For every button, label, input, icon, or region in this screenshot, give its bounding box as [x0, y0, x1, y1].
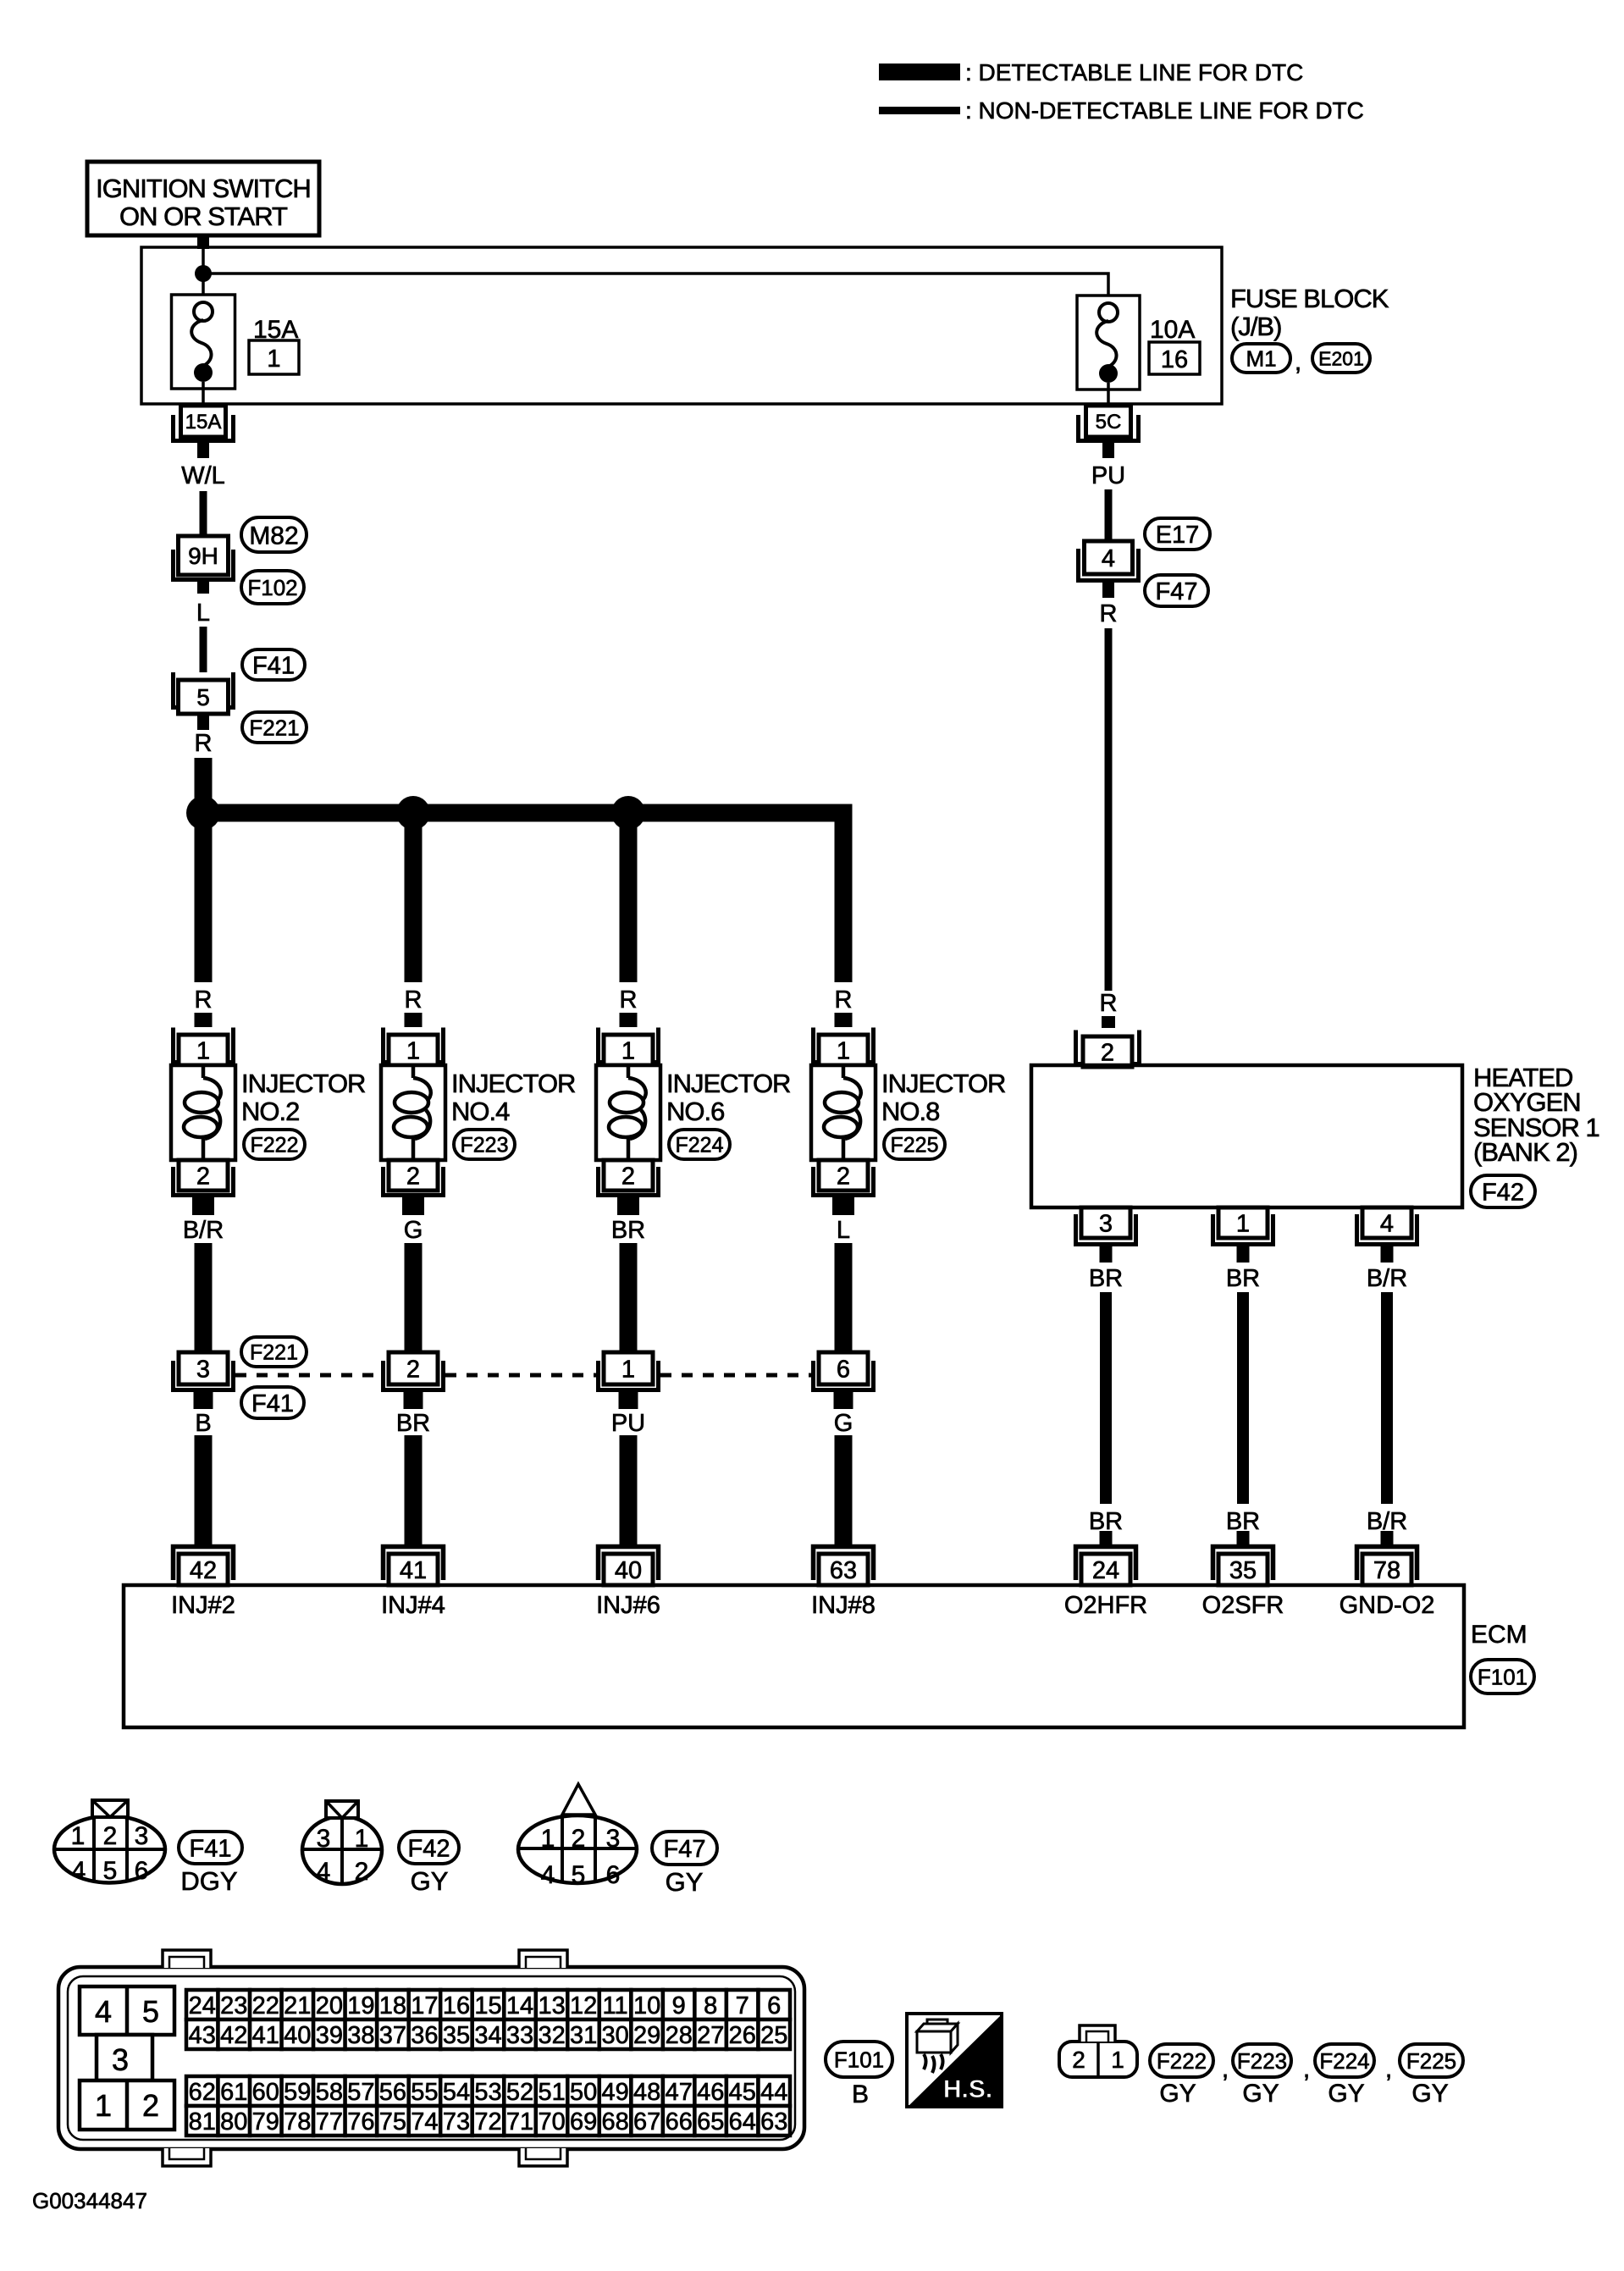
- ECM pin 24: [1076, 1547, 1136, 1586]
- bus wire R distributing to injectors: [195, 804, 853, 822]
- svg-text:43: 43: [189, 2022, 216, 2049]
- wire label BR: [611, 1217, 645, 1244]
- legend: detectable line sample: [879, 59, 1303, 86]
- wire stub below 5C: [1102, 443, 1114, 458]
- svg-text:2: 2: [406, 1356, 420, 1383]
- wire BR (detectable): [620, 1243, 638, 1352]
- svg-text:L: L: [196, 600, 210, 627]
- wire PU: [1105, 489, 1113, 541]
- connector ref F47 (view): [652, 1832, 717, 1897]
- fuse 1 15A: [172, 295, 235, 389]
- wire stub below sensor pin 3: [1100, 1246, 1113, 1263]
- svg-text:ON OR START: ON OR START: [119, 202, 288, 231]
- svg-text:R: R: [405, 986, 423, 1014]
- svg-text:E17: E17: [1156, 522, 1200, 549]
- svg-text:68: 68: [601, 2108, 628, 2136]
- svg-text:F47: F47: [664, 1836, 706, 1863]
- ECM pin label INJ#2: [171, 1592, 235, 1619]
- svg-text:74: 74: [411, 2108, 438, 2136]
- svg-text:29: 29: [633, 2022, 660, 2049]
- svg-text:16: 16: [443, 1992, 470, 2020]
- svg-text:55: 55: [411, 2079, 438, 2106]
- svg-text:H.S.: H.S.: [943, 2075, 992, 2103]
- svg-text:6: 6: [606, 1861, 621, 1889]
- connector ref F225: [884, 1130, 945, 1159]
- wire label W/L: [181, 462, 225, 489]
- svg-text:R: R: [620, 986, 638, 1014]
- connector ref M82: [241, 517, 307, 552]
- svg-text:77: 77: [316, 2108, 343, 2136]
- svg-text:E201: E201: [1318, 347, 1364, 369]
- injector NO.8 pin 1: [814, 1028, 874, 1066]
- connector ref F41 (row): [241, 1387, 304, 1418]
- svg-text:1: 1: [621, 1037, 635, 1064]
- wire label PU: [1091, 462, 1125, 489]
- wire label R (NO.6): [620, 986, 638, 1014]
- wire stub above ECM pin 78: [1381, 1531, 1394, 1546]
- svg-text:70: 70: [538, 2108, 565, 2136]
- svg-text:F222: F222: [251, 1134, 299, 1158]
- wire label R (right): [1100, 600, 1118, 627]
- wire label PU: [611, 1410, 645, 1437]
- wire stub below connector 6: [834, 1392, 853, 1409]
- svg-text:9H: 9H: [188, 543, 218, 569]
- svg-text:,: ,: [1303, 2055, 1310, 2083]
- svg-text:INJ#8: INJ#8: [811, 1592, 876, 1619]
- svg-text:24: 24: [1092, 1557, 1119, 1584]
- wire W/L: [200, 491, 207, 536]
- svg-text:INJECTOR: INJECTOR: [451, 1069, 575, 1098]
- svg-text:R: R: [195, 730, 213, 757]
- wire stub below 5: [197, 714, 209, 730]
- ECM pin label O2SFR: [1202, 1592, 1284, 1619]
- svg-text:57: 57: [347, 2079, 374, 2106]
- svg-text:,: ,: [1385, 2055, 1392, 2083]
- svg-text:45: 45: [729, 2079, 756, 2106]
- connector ref F224 (view): [1315, 2044, 1374, 2108]
- svg-text:3: 3: [1099, 1210, 1113, 1237]
- svg-text:13: 13: [538, 1992, 565, 2020]
- svg-text:BR: BR: [1089, 1265, 1123, 1292]
- svg-text:59: 59: [284, 2079, 311, 2106]
- wire R drop to injector NO.6: [620, 813, 638, 982]
- svg-text:42: 42: [190, 1557, 217, 1584]
- svg-text:O2HFR: O2HFR: [1064, 1592, 1147, 1619]
- svg-text:F224: F224: [1319, 2048, 1369, 2074]
- svg-text:F42: F42: [1482, 1179, 1524, 1206]
- heated oxygen sensor 1 (bank 2) box: [1031, 1065, 1462, 1207]
- connector ref F41: [242, 649, 305, 680]
- svg-text:3: 3: [196, 1356, 210, 1383]
- svg-text:15: 15: [474, 1992, 501, 2020]
- connector ref F223 (view): [1233, 2044, 1291, 2108]
- svg-text:2: 2: [837, 1163, 850, 1190]
- ECM box: [124, 1585, 1464, 1727]
- svg-text:4: 4: [72, 1857, 86, 1885]
- injector NO.6 pin 2: [599, 1160, 659, 1196]
- svg-text:5: 5: [196, 684, 210, 710]
- wire label R (NO.4): [405, 986, 423, 1014]
- svg-text:27: 27: [697, 2022, 724, 2049]
- connector ref F222: [244, 1130, 305, 1159]
- svg-text:10A: 10A: [1150, 316, 1195, 344]
- svg-text:53: 53: [474, 2079, 501, 2106]
- svg-text:62: 62: [189, 2079, 216, 2106]
- injector label NO.6: [666, 1069, 790, 1126]
- svg-text:GY: GY: [1159, 2080, 1196, 2108]
- svg-text:47: 47: [666, 2079, 693, 2106]
- svg-text:F101: F101: [1478, 1664, 1527, 1689]
- svg-text:3: 3: [112, 2042, 129, 2077]
- svg-text:PU: PU: [1091, 462, 1125, 489]
- svg-text:2: 2: [1072, 2047, 1085, 2073]
- svg-text:R: R: [835, 986, 853, 1014]
- svg-text:F102: F102: [247, 575, 297, 600]
- connector E201: [1312, 344, 1370, 373]
- svg-text:1: 1: [406, 1037, 420, 1064]
- connector ref F101: [1471, 1660, 1534, 1694]
- ignition switch box: [87, 162, 319, 235]
- svg-text:21: 21: [284, 1992, 311, 2020]
- wire label B: [195, 1410, 211, 1437]
- svg-text:15A: 15A: [185, 411, 222, 434]
- svg-text:M82: M82: [249, 522, 298, 550]
- svg-text:F225: F225: [1406, 2048, 1456, 2074]
- svg-text:: NON-DETECTABLE LINE FOR DTC: : NON-DETECTABLE LINE FOR DTC: [965, 97, 1364, 124]
- ECM connector face view F101: [58, 1950, 804, 2166]
- wire R drop to injector NO.2: [195, 813, 213, 982]
- connector face view F41: [54, 1800, 165, 1885]
- wire stub below injector NO.8: [832, 1197, 854, 1215]
- wire stub below sensor pin 1: [1237, 1246, 1250, 1263]
- wire: fuse 1 to connector 15A: [202, 382, 205, 404]
- svg-text:66: 66: [666, 2108, 693, 2136]
- fuse 16 rating 10A: [1150, 316, 1195, 344]
- svg-text:20: 20: [316, 1992, 343, 2020]
- ECM pin label INJ#8: [811, 1592, 876, 1619]
- svg-text:19: 19: [347, 1992, 374, 2020]
- wire stub below connector 4: [1102, 583, 1114, 598]
- svg-text:GY: GY: [411, 1866, 449, 1896]
- wire stub above ECM pin 24: [1100, 1531, 1113, 1546]
- wire stub below connector 1: [619, 1392, 638, 1409]
- svg-text:73: 73: [443, 2108, 470, 2136]
- svg-text:PU: PU: [611, 1410, 645, 1437]
- wire: into junction: [202, 249, 205, 268]
- connector ref F47: [1145, 575, 1208, 606]
- wire label BR (upper): [1226, 1265, 1260, 1292]
- wire label B/R: [183, 1217, 224, 1244]
- wire label R: [195, 730, 213, 757]
- svg-text:6: 6: [135, 1857, 149, 1885]
- svg-text:W/L: W/L: [181, 462, 225, 489]
- ECM pin 78: [1357, 1547, 1417, 1586]
- svg-text:75: 75: [379, 2108, 406, 2136]
- wire BR (detectable): [405, 1435, 423, 1546]
- wire G (detectable): [835, 1435, 853, 1546]
- wire label B/R (upper): [1367, 1265, 1407, 1292]
- connector ref F223: [454, 1130, 515, 1159]
- svg-text:1: 1: [621, 1356, 635, 1383]
- svg-text:G00344847: G00344847: [32, 2188, 147, 2213]
- wire: fuse 16 to connector 5C: [1107, 383, 1110, 404]
- svg-text:INJECTOR: INJECTOR: [881, 1069, 1005, 1098]
- svg-text:6: 6: [767, 1992, 781, 2020]
- svg-text:F224: F224: [676, 1134, 724, 1158]
- svg-text:,: ,: [1295, 348, 1301, 376]
- connector ref F42 (view): [399, 1832, 459, 1896]
- wire label L: [196, 600, 210, 627]
- junction node bus 1: [186, 796, 220, 830]
- injector NO.4 pin 1: [384, 1028, 444, 1066]
- sensor pin 4: [1357, 1207, 1417, 1245]
- svg-text:INJ#4: INJ#4: [381, 1592, 445, 1619]
- svg-text:GND-O2: GND-O2: [1340, 1592, 1435, 1619]
- svg-text:17: 17: [411, 1992, 438, 2020]
- svg-text:34: 34: [474, 2022, 501, 2049]
- wire label L: [837, 1217, 850, 1244]
- wire label R (NO.2): [195, 986, 213, 1014]
- svg-text:F222: F222: [1157, 2048, 1207, 2074]
- connector ref F41 (view): [179, 1832, 242, 1896]
- connector face view F42: [302, 1801, 382, 1886]
- svg-text:2: 2: [142, 2088, 159, 2123]
- svg-text:M1: M1: [1246, 345, 1276, 371]
- wire stub below 15A: [197, 443, 209, 458]
- wire: junction to fuse 1: [202, 279, 205, 302]
- wire PU (detectable): [620, 1435, 638, 1546]
- svg-text:1: 1: [95, 2088, 112, 2123]
- svg-text:ECM: ECM: [1471, 1621, 1527, 1649]
- svg-text:31: 31: [570, 2022, 597, 2049]
- svg-text:IGNITION SWITCH: IGNITION SWITCH: [96, 174, 311, 203]
- svg-text:18: 18: [379, 1992, 406, 2020]
- svg-text:37: 37: [379, 2022, 406, 2049]
- svg-text:16: 16: [1161, 346, 1188, 373]
- svg-text:3: 3: [317, 1825, 331, 1853]
- svg-text:2: 2: [196, 1163, 210, 1190]
- connector 5C (fuse block output): [1079, 406, 1139, 441]
- connector 3 (F221 / F41 row): [174, 1352, 234, 1390]
- wire B/R (detectable): [195, 1243, 213, 1352]
- wire label BR: [396, 1410, 430, 1437]
- wire stub below connector 2: [404, 1392, 423, 1409]
- connector ref F42: [1471, 1175, 1535, 1207]
- svg-text:FUSE BLOCK: FUSE BLOCK: [1230, 284, 1389, 313]
- svg-text:42: 42: [220, 2022, 247, 2049]
- ECM label: [1471, 1621, 1527, 1649]
- svg-text:79: 79: [252, 2108, 279, 2136]
- svg-text:,: ,: [1222, 2055, 1229, 2083]
- fuse 16 10A: [1077, 296, 1140, 390]
- svg-text:1: 1: [837, 1037, 850, 1064]
- injector NO.2 pin 2: [174, 1160, 234, 1196]
- svg-text:39: 39: [316, 2022, 343, 2049]
- wire label BR (lower): [1089, 1508, 1123, 1535]
- sensor pin 2: [1076, 1031, 1140, 1068]
- svg-text:30: 30: [601, 2022, 628, 2049]
- connector ref E17: [1145, 518, 1210, 550]
- svg-text:58: 58: [316, 2079, 343, 2106]
- svg-text:9: 9: [672, 1992, 686, 2020]
- wire stub below injector NO.6: [617, 1197, 639, 1215]
- svg-text:81: 81: [189, 2108, 216, 2136]
- svg-text:38: 38: [347, 2022, 374, 2049]
- H.S. hand symbol logo: [907, 2014, 1002, 2107]
- fuse block label: [1230, 284, 1389, 341]
- wire label BR (lower): [1226, 1508, 1260, 1535]
- svg-text:F101: F101: [834, 2047, 884, 2072]
- svg-text:1: 1: [196, 1037, 210, 1064]
- connector 15A (fuse block output): [174, 406, 234, 441]
- svg-text:14: 14: [506, 1992, 533, 2020]
- svg-text:72: 72: [474, 2108, 501, 2136]
- connector face view 2|1: [1059, 2025, 1137, 2077]
- svg-text:BR: BR: [1226, 1265, 1260, 1292]
- svg-text:2: 2: [103, 1822, 118, 1850]
- injector NO.2 pin 1: [174, 1028, 234, 1066]
- connector ref F221: [242, 712, 307, 743]
- svg-text:5: 5: [572, 1861, 586, 1889]
- svg-text:R: R: [1100, 600, 1118, 627]
- connector M1: [1232, 344, 1290, 373]
- svg-text:R: R: [1100, 990, 1118, 1017]
- legend: non-detectable line sample: [879, 97, 1364, 124]
- svg-text:56: 56: [379, 2079, 406, 2106]
- svg-text:76: 76: [347, 2108, 374, 2136]
- injector label NO.4: [451, 1069, 575, 1126]
- svg-text:52: 52: [506, 2079, 533, 2106]
- figure id G00344847: [32, 2188, 147, 2213]
- svg-text:F47: F47: [1156, 578, 1198, 605]
- svg-text:F221: F221: [250, 1341, 298, 1365]
- svg-text:F41: F41: [252, 652, 295, 679]
- svg-text:51: 51: [538, 2079, 565, 2106]
- svg-text:GY: GY: [1242, 2080, 1279, 2108]
- wire BR: [1237, 1292, 1249, 1504]
- wire stub above sensor pin 2: [1102, 1016, 1115, 1028]
- injector NO.6 body coil: [596, 1065, 660, 1160]
- wire: ignition switch to fuse block: [197, 234, 209, 249]
- svg-text:2: 2: [621, 1163, 635, 1190]
- svg-text:67: 67: [633, 2108, 660, 2136]
- svg-text:7: 7: [736, 1992, 749, 2020]
- wire L (detectable): [835, 1243, 853, 1352]
- wire G (detectable): [405, 1243, 423, 1352]
- svg-text:NO.4: NO.4: [451, 1097, 510, 1126]
- injector NO.8 pin 2: [814, 1160, 874, 1196]
- svg-text:63: 63: [830, 1557, 857, 1584]
- svg-text:11: 11: [603, 1992, 628, 2020]
- svg-text:INJ#2: INJ#2: [171, 1592, 235, 1619]
- svg-text:71: 71: [506, 2108, 533, 2136]
- svg-text:R: R: [195, 986, 213, 1014]
- svg-text:78: 78: [1373, 1557, 1400, 1584]
- svg-text:F223: F223: [461, 1134, 509, 1158]
- svg-text:44: 44: [760, 2079, 787, 2106]
- junction node: [195, 265, 212, 282]
- svg-text:4: 4: [541, 1861, 555, 1889]
- sensor pin 1: [1213, 1207, 1273, 1245]
- injector label NO.8: [881, 1069, 1005, 1126]
- svg-text:64: 64: [729, 2108, 756, 2136]
- wire stub below injector NO.2: [192, 1197, 214, 1215]
- svg-text:49: 49: [601, 2079, 628, 2106]
- svg-text:80: 80: [220, 2108, 247, 2136]
- svg-text:5: 5: [103, 1857, 118, 1885]
- wire stub below injector NO.4: [402, 1197, 424, 1215]
- svg-text:3: 3: [606, 1825, 621, 1853]
- wire label B/R (lower): [1367, 1508, 1407, 1535]
- svg-text:4: 4: [317, 1858, 331, 1886]
- svg-text:INJECTOR: INJECTOR: [241, 1069, 365, 1098]
- svg-text:1: 1: [355, 1825, 369, 1853]
- connector face view F47: [518, 1784, 637, 1889]
- svg-text:46: 46: [697, 2079, 724, 2106]
- fuse 1 number box: [249, 340, 299, 374]
- connector 1 (F221 / F41 row): [599, 1352, 659, 1390]
- fuse 16 number box: [1149, 342, 1200, 374]
- svg-text:25: 25: [760, 2022, 787, 2049]
- svg-text:1: 1: [541, 1825, 555, 1853]
- svg-text:BR: BR: [611, 1217, 645, 1244]
- ECM pin label O2HFR: [1064, 1592, 1147, 1619]
- connector ref F225 (view): [1400, 2044, 1463, 2108]
- svg-text:(J/B): (J/B): [1230, 312, 1281, 341]
- injector NO.6 pin 1: [599, 1028, 659, 1066]
- svg-text:23: 23: [220, 1992, 247, 2020]
- svg-text:32: 32: [538, 2022, 565, 2049]
- svg-text:1: 1: [1236, 1210, 1250, 1237]
- svg-text:41: 41: [252, 2022, 279, 2049]
- ECM pin 42: [174, 1547, 234, 1586]
- wire stub below connector 3: [194, 1392, 213, 1409]
- svg-text:28: 28: [666, 2022, 693, 2049]
- wire R drop to injector NO.8: [835, 804, 853, 983]
- injector NO.8 body coil: [811, 1065, 876, 1160]
- junction node bus 2: [396, 796, 430, 830]
- wire label R (NO.8): [835, 986, 853, 1014]
- wire L: [200, 627, 207, 672]
- svg-text:1: 1: [1111, 2047, 1124, 2073]
- svg-text:NO.6: NO.6: [666, 1097, 724, 1126]
- svg-text:4: 4: [95, 1994, 112, 2029]
- wire: junction to fuse 16 (non-detectable): [207, 274, 1108, 302]
- svg-text:B: B: [195, 1410, 211, 1437]
- ECM pin label GND-O2: [1340, 1592, 1435, 1619]
- svg-text:: DETECTABLE LINE FOR DTC: : DETECTABLE LINE FOR DTC: [965, 59, 1303, 86]
- svg-text:INJECTOR: INJECTOR: [666, 1069, 790, 1098]
- svg-text:G: G: [834, 1410, 853, 1437]
- wire B/R: [1381, 1292, 1393, 1504]
- svg-text:2: 2: [406, 1163, 420, 1190]
- svg-text:F41: F41: [190, 1835, 232, 1862]
- wire R drop to injector NO.4: [405, 813, 423, 982]
- svg-text:GY: GY: [666, 1867, 704, 1897]
- svg-text:50: 50: [570, 2079, 597, 2106]
- svg-text:54: 54: [443, 2079, 470, 2106]
- wire BR: [1100, 1292, 1112, 1504]
- ECM pin label INJ#6: [596, 1592, 660, 1619]
- wire R long: [1105, 628, 1113, 991]
- svg-text:2: 2: [1101, 1039, 1114, 1066]
- connector 9H (M82 / F102): [174, 536, 234, 580]
- svg-text:78: 78: [284, 2108, 311, 2136]
- wire label R (above sensor): [1100, 990, 1118, 1017]
- ECM pin 40: [599, 1547, 659, 1586]
- svg-text:6: 6: [837, 1356, 850, 1383]
- svg-text:63: 63: [760, 2108, 787, 2136]
